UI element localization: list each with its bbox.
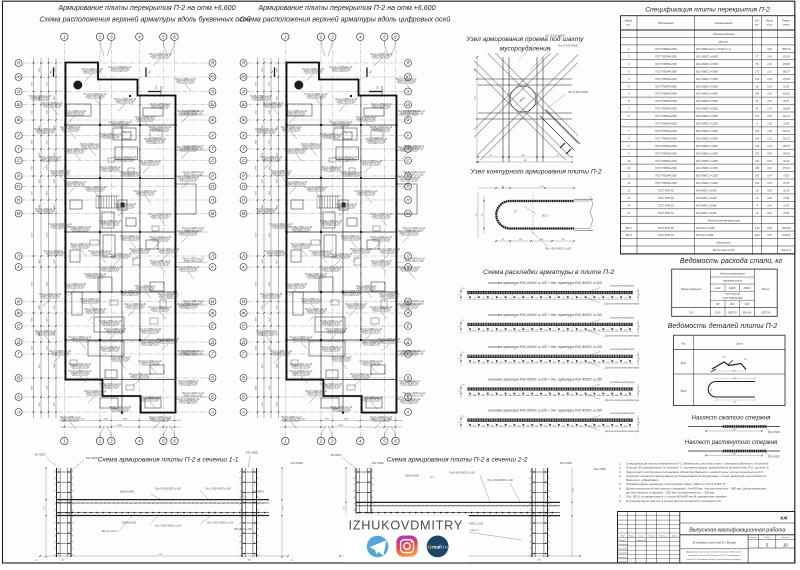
svg-text:Ф10 А500С L=2500: Ф10 А500С L=2500	[696, 108, 718, 111]
svg-text:А: А	[406, 410, 410, 415]
bar run 5	[459, 409, 641, 434]
svg-text:0,62: 0,62	[767, 49, 772, 51]
svg-text:А500С Ф10 ш.150: А500С Ф10 ш.150	[183, 260, 203, 263]
detail sketch VS1	[712, 362, 746, 370]
section 2-2 left wall	[355, 468, 357, 557]
svg-text:Приме-: Приме-	[782, 21, 790, 23]
svg-text:700: 700	[562, 298, 565, 300]
svg-text:Ф8 А2х3 L=890: Ф8 А2х3 L=890	[696, 234, 714, 237]
svg-text:518,20: 518,20	[783, 94, 791, 96]
svg-text:350: 350	[500, 426, 503, 428]
svg-text:Е: Е	[242, 324, 245, 329]
svg-text:3581: 3581	[269, 166, 271, 170]
letter axes	[15, 60, 216, 416]
svg-text:Ф10 А500С L=3000: Ф10 А500С L=3000	[696, 93, 718, 96]
svg-text:250: 250	[534, 362, 538, 364]
svg-text:200: 200	[623, 330, 627, 332]
svg-text:Д: Д	[210, 340, 214, 345]
svg-text:350: 350	[544, 426, 547, 428]
svg-text:ВСх1: ВСх1	[626, 227, 633, 230]
balcony	[397, 184, 418, 214]
svg-text:183,57: 183,57	[783, 146, 791, 148]
svg-text:2211: 2211	[262, 68, 264, 73]
svg-text:700: 700	[615, 298, 618, 300]
svg-text:30: 30	[463, 288, 465, 290]
svg-text:300: 300	[580, 394, 583, 396]
svg-text:Ф10 А500С L=1000: Ф10 А500С L=1000	[696, 182, 718, 185]
svg-text:100: 100	[723, 357, 726, 359]
svg-text:Армирование плиты перекрытия П: Армирование плиты перекрытия П-2 на отм.…	[57, 4, 235, 12]
svg-text:350: 350	[624, 426, 627, 428]
section 2-2 right wall	[531, 468, 533, 557]
svg-text:50: 50	[291, 560, 293, 562]
svg-text:Л: Л	[210, 254, 214, 259]
steel consumption table	[672, 269, 778, 316]
svg-text:ГОСТ Р52544-2006: ГОСТ Р52544-2006	[723, 297, 744, 300]
svg-text:В спецификации для поз.1 учтен: В спецификации для поз.1 учтен расход на…	[626, 499, 722, 503]
svg-text:Поз.1 Ф10 А500С ш.100: Поз.1 Ф10 А500С ш.100	[545, 248, 572, 251]
svg-text:250: 250	[543, 362, 547, 364]
svg-text:250: 250	[596, 362, 600, 364]
svg-text:2051: 2051	[276, 305, 278, 310]
svg-text:Ф10 А500С L=6400: Ф10 А500С L=6400	[696, 56, 718, 59]
svg-text:ГОСТ Р52544-2006: ГОСТ Р52544-2006	[655, 78, 677, 81]
svg-text:Ф10 А500С L=2500: Ф10 А500С L=2500	[696, 115, 718, 118]
svg-text:И: И	[242, 299, 245, 304]
title block frame	[618, 512, 795, 564]
svg-text:2: 2	[148, 70, 151, 74]
svg-text:225,37: 225,37	[782, 138, 791, 140]
svg-text:200: 200	[534, 330, 538, 332]
svg-text:2,44: 2,44	[766, 56, 772, 59]
svg-text:А: А	[16, 410, 20, 415]
svg-text:200: 200	[543, 330, 547, 332]
svg-text:10': 10'	[627, 167, 631, 170]
section 1-1 slab	[56, 499, 269, 501]
svg-text:1691: 1691	[755, 235, 761, 237]
svg-text:250: 250	[570, 362, 574, 364]
svg-text:ГОСТ Р52544-2006: ГОСТ Р52544-2006	[655, 130, 677, 133]
svg-text:300: 300	[491, 394, 494, 396]
svg-text:Э: Э	[17, 89, 20, 94]
svg-text:1: 1	[155, 86, 157, 90]
stairs	[96, 196, 117, 208]
svg-text:ВСх2: ВСх2	[681, 391, 687, 393]
svg-text:Дополнительная арматура: Дополнительная арматура	[604, 429, 640, 433]
plan annotations	[250, 54, 421, 421]
svg-text:200: 200	[481, 330, 485, 332]
svg-text:Поз.12 Ф10 А500С: Поз.12 Ф10 А500С	[545, 35, 565, 38]
number axes	[61, 33, 179, 445]
svg-text:200: 200	[508, 330, 512, 332]
svg-text:В: В	[211, 376, 214, 381]
svg-text:1,36: 1,36	[767, 124, 772, 126]
svg-text:Р: Р	[211, 174, 214, 179]
svg-text:Листов: Листов	[781, 537, 789, 539]
detail sketch VS2	[708, 382, 755, 398]
svg-text:350: 350	[526, 426, 529, 428]
svg-text:Поз.: Поз.	[681, 343, 686, 346]
svg-text:Сборные единицы: Сборные единицы	[713, 33, 735, 36]
svg-text:2: 2	[98, 34, 102, 39]
svg-text:350: 350	[473, 426, 476, 428]
opening dims	[476, 57, 478, 162]
svg-text:Л: Л	[241, 254, 245, 259]
svg-text:Б: Б	[211, 395, 214, 400]
svg-text:Детали: Детали	[718, 41, 729, 44]
letter axes	[240, 60, 412, 416]
svg-text:Ф8 А240С L=1420: Ф8 А240С L=1420	[696, 197, 717, 200]
svg-text:300: 300	[553, 394, 556, 396]
contour section mark	[532, 194, 534, 236]
svg-text:232,54: 232,54	[782, 115, 791, 118]
svg-text:Кол.уч: Кол.уч	[629, 535, 635, 537]
svg-text:П-2: П-2	[689, 311, 694, 314]
svg-text:Е: Е	[17, 324, 20, 329]
svg-text:250: 250	[525, 362, 529, 364]
svg-text:350: 350	[482, 426, 485, 428]
svg-text:Ю: Ю	[241, 75, 246, 80]
svg-text:2: 2	[369, 70, 372, 74]
svg-text:200: 200	[570, 330, 574, 332]
svg-text:А400С: А400С	[728, 287, 736, 290]
svg-text:200: 200	[614, 330, 618, 332]
svg-text:2: 2	[49, 70, 52, 74]
section 1-1 right wall	[241, 468, 243, 557]
svg-text:700: 700	[509, 298, 512, 300]
svg-text:ГОСТ Р52544-2006: ГОСТ Р52544-2006	[655, 93, 677, 96]
svg-text:Дата: Дата	[671, 535, 678, 537]
svg-text:1,85: 1,85	[767, 101, 772, 103]
elevator	[339, 200, 348, 210]
svg-text:73,92: 73,92	[783, 176, 790, 178]
shaft circle	[295, 81, 304, 90]
svg-text:Е: Е	[407, 324, 410, 329]
svg-text:700: 700	[597, 298, 600, 300]
small fixtures	[108, 158, 115, 162]
svg-text:Поз.2' Ф10 А500С ш.100: Поз.2' Ф10 А500С ш.100	[155, 525, 182, 528]
svg-text:0,99: 0,99	[767, 153, 772, 155]
svg-text:Ф12 А500С: Ф12 А500С	[372, 462, 385, 465]
svg-text:поз.: поз.	[626, 24, 631, 27]
svg-text:300: 300	[544, 394, 547, 396]
svg-text:2: 2	[270, 70, 273, 74]
svg-text:Дополнительная арматура: Дополнительная арматура	[604, 398, 640, 402]
svg-text:Н.контр: Н.контр	[619, 557, 628, 559]
svg-text:33,26: 33,26	[715, 312, 721, 314]
svg-text:2051: 2051	[262, 402, 264, 407]
svg-text:1,36: 1,36	[767, 131, 772, 133]
svg-text:И: И	[17, 299, 20, 304]
svg-text:Спецификация плиты перекрытия: Спецификация плиты перекрытия П-2	[645, 7, 770, 14]
svg-text:700: 700	[606, 298, 609, 300]
svg-text:6.: 6.	[619, 486, 622, 490]
svg-text:Э: Э	[211, 89, 214, 94]
svg-text:66,73: 66,73	[783, 101, 790, 103]
svg-text:250: 250	[490, 362, 494, 364]
svg-text:1,23: 1,23	[767, 146, 772, 148]
svg-text:ГОСТ Р52544-2006: ГОСТ Р52544-2006	[655, 56, 677, 59]
svg-text:4.: 4.	[619, 474, 622, 478]
svg-text:300: 300	[571, 394, 574, 396]
svg-text:300: 300	[597, 394, 600, 396]
svg-text:Р: Р	[242, 174, 245, 179]
svg-text:2211: 2211	[39, 68, 41, 73]
svg-text:ед кг: ед кг	[767, 24, 773, 27]
svg-text:ГОСТ Р52544-2006: ГОСТ Р52544-2006	[655, 145, 677, 148]
svg-text:0,89: 0,89	[767, 228, 772, 230]
number axes	[282, 33, 400, 445]
svg-text:Б: Б	[242, 395, 245, 400]
svg-text:Поз.13 Ф10 А500С: Поз.13 Ф10 А500С	[558, 45, 578, 48]
svg-text:Дополнительная арматура: Дополнительная арматура	[604, 302, 640, 306]
svg-text:ГОСТ 5781-82: ГОСТ 5781-82	[658, 234, 675, 237]
svg-text:700: 700	[544, 298, 547, 300]
svg-text:2,16: 2,16	[766, 64, 772, 66]
svg-text:30: 30	[463, 416, 465, 418]
svg-text:Поз.1' Ф10 А500С ш.100: Поз.1' Ф10 А500С ш.100	[207, 522, 234, 525]
svg-text:226,32: 226,32	[782, 131, 791, 133]
svg-text:16-этажный жилой дом В г. Моск: 16-этажный жилой дом В г. Москве	[692, 540, 736, 544]
svg-text:Ф8 А500С: Ф8 А500С	[331, 454, 342, 457]
svg-text:200: 200	[561, 330, 565, 332]
svg-text:Ф10 А500С L=1500: Ф10 А500С L=1500	[696, 167, 718, 170]
svg-text:А500С: А500С	[743, 287, 751, 290]
svg-text:ГОСТ Р52544-2006: ГОСТ Р52544-2006	[655, 182, 677, 185]
svg-text:5905,70: 5905,70	[728, 312, 737, 314]
svg-text:293,12 м³: 293,12 м³	[780, 249, 791, 252]
svg-text:Д: Д	[406, 340, 410, 345]
svg-text:Арматура класса: Арматура класса	[722, 279, 743, 282]
svg-text:250: 250	[481, 362, 485, 364]
balcony	[176, 184, 197, 214]
notes	[618, 462, 770, 503]
svg-text:М: М	[406, 211, 410, 216]
svg-text:200х5н=2000: 200х5н=2000	[404, 476, 420, 478]
svg-text:Я: Я	[406, 61, 410, 66]
svg-text:ГОСТ Р52544-2006: ГОСТ Р52544-2006	[655, 123, 677, 126]
svg-text:Материалы: Материалы	[716, 242, 731, 245]
cut mark 2 left	[53, 68, 55, 78]
svg-text:Наименование: Наименование	[715, 21, 733, 25]
svg-text:В: В	[242, 376, 245, 381]
svg-text:2051: 2051	[39, 402, 41, 407]
svg-text:ГОСТ Р52544-2006: ГОСТ Р52544-2006	[655, 100, 677, 103]
svg-text:ГОСТ 5781-82: ГОСТ 5781-82	[725, 294, 740, 296]
svg-text:Ф10: Ф10	[730, 303, 735, 306]
svg-text:Ф10 А500С L=2200: Ф10 А500С L=2200	[696, 123, 718, 126]
svg-text:А2х3: А2х3	[714, 287, 721, 290]
svg-text:3581: 3581	[46, 166, 48, 170]
svg-text:250: 250	[614, 362, 618, 364]
svg-text:200: 200	[605, 330, 609, 332]
svg-text:Нахлест сжатого стержня: Нахлест сжатого стержня	[692, 416, 772, 422]
svg-text:Консульт: Консульт	[619, 553, 629, 555]
svg-text:А500С Ф10 ш.250: А500С Ф10 ш.250	[183, 394, 203, 397]
svg-text:Ф10 А500С: Ф10 А500С	[252, 491, 264, 494]
svg-text:6307,58: 6307,58	[762, 312, 771, 314]
svg-text:18,25: 18,25	[783, 213, 790, 215]
svg-text:50: 50	[459, 326, 461, 328]
svg-text:3583,76: 3583,76	[782, 49, 791, 51]
svg-text:Ф10 А500С L=1200: Ф10 А500С L=1200	[696, 175, 718, 178]
svg-text:0,74: 0,74	[767, 175, 772, 178]
svg-text:700: 700	[553, 298, 556, 300]
svg-text:Ф10 А500С Бухт L=5754,4 п.м: Ф10 А500С Бухт L=5754,4 п.м	[696, 48, 731, 51]
title block rows right	[680, 522, 795, 524]
cut mark 2 right	[145, 68, 147, 78]
section 2-2 slab	[356, 501, 560, 503]
svg-text:50: 50	[639, 294, 641, 296]
svg-text:50: 50	[459, 390, 461, 392]
contour dims	[478, 187, 574, 189]
svg-text:250: 250	[516, 362, 520, 364]
svg-text:300: 300	[517, 394, 520, 396]
svg-text:5942,68: 5942,68	[782, 227, 791, 230]
svg-text:700: 700	[500, 298, 503, 300]
svg-text:Дополнительная арматура: Дополнительная арматура	[604, 365, 640, 369]
right leaders	[398, 114, 404, 116]
svg-text:300: 300	[500, 394, 503, 396]
svg-text:300: 300	[526, 394, 529, 396]
svg-text:30: 30	[463, 320, 465, 322]
svg-text:179,68: 179,68	[783, 64, 791, 66]
svg-text:- - -- -- - -: - - -- -- - -	[376, 534, 384, 536]
svg-text:основная арматура: основная арматура	[610, 381, 635, 384]
svg-text:200: 200	[499, 330, 503, 332]
svg-text:500х5н=2500: 500х5н=2500	[120, 492, 135, 494]
svg-text:700: 700	[491, 298, 494, 300]
svg-text:300: 300	[624, 394, 627, 396]
svg-text:Ф10 А500С: Ф10 А500С	[768, 455, 781, 458]
watermark panel	[344, 514, 470, 563]
svg-text:Ю: Ю	[16, 75, 21, 80]
svg-text:300: 300	[248, 560, 251, 562]
svg-text:Ф10 А500С L=1500: Ф10 А500С L=1500	[696, 160, 718, 163]
svg-text:30: 30	[463, 352, 465, 354]
mail.ru icon	[427, 536, 449, 558]
svg-text:200: 200	[552, 330, 556, 332]
svg-text:50: 50	[459, 421, 461, 423]
svg-text:Схема раскладки арматуры в пли: Схема раскладки арматуры в плите П-2	[483, 268, 614, 276]
svg-text:№ док: № док	[648, 534, 655, 537]
svg-text:Я: Я	[16, 61, 20, 66]
svg-text:2211: 2211	[255, 110, 257, 115]
svg-text:ГОСТ 5781-82: ГОСТ 5781-82	[658, 190, 675, 193]
svg-text:ГОСТ Р52544-2006: ГОСТ Р52544-2006	[655, 175, 677, 178]
svg-text:0,92: 0,92	[767, 168, 772, 170]
svg-text:Лист: Лист	[764, 537, 770, 539]
svg-text:700: 700	[526, 298, 529, 300]
svg-text:200: 200	[516, 330, 520, 332]
svg-text:Схема армирования плиты П-2 в: Схема армирования плиты П-2 в сечении 1-…	[98, 457, 239, 464]
svg-text:Марка элемента: Марка элемента	[681, 288, 702, 291]
svg-text:основная арматура Ф10 А500С ш.: основная арматура Ф10 А500С ш.100 + доп.…	[488, 281, 602, 285]
svg-text:350: 350	[734, 402, 737, 404]
svg-text:260: 260	[732, 371, 736, 373]
svg-text:КЖ: КЖ	[780, 516, 788, 521]
svg-text:250: 250	[508, 362, 512, 364]
svg-text:основная арматура Ф10 А500С ш.: основная арматура Ф10 А500С ш.100 + доп.…	[488, 345, 602, 349]
svg-text:Выпускная квалификационная раб: Выпускная квалификационная работа	[689, 527, 785, 533]
svg-text:ГОСТ Р52544-2006: ГОСТ Р52544-2006	[655, 152, 677, 155]
junction fills	[99, 124, 101, 126]
bubble leader curves bottom	[321, 426, 325, 437]
svg-text:350: 350	[571, 426, 574, 428]
svg-text:Ф10 А500С L=2000: Ф10 А500С L=2000	[696, 137, 718, 140]
svg-text:210: 210	[44, 507, 46, 511]
svg-text:Ш: Ш	[406, 102, 410, 107]
svg-text:300: 300	[535, 394, 538, 396]
svg-text:Ф10 А500С L=1600: Ф10 А500С L=1600	[696, 152, 718, 155]
svg-text:350: 350	[517, 426, 520, 428]
svg-text:Т: Т	[17, 147, 20, 152]
svg-text:700: 700	[624, 298, 627, 300]
svg-text:1,85: 1,85	[767, 94, 772, 96]
svg-text:Ф12 А500С: Ф12 А500С	[594, 468, 607, 471]
svg-text:50: 50	[639, 390, 641, 392]
svg-text:Т: Т	[242, 147, 245, 152]
section 2-2 dims	[345, 468, 347, 557]
svg-text:385,67: 385,67	[783, 71, 791, 73]
svg-text:1,54: 1,54	[767, 108, 772, 111]
svg-text:основная арматура: основная арматура	[610, 284, 635, 287]
svg-text:150,55: 150,55	[783, 153, 791, 155]
svg-text:Поз.1 Ф10 А500С ш.100: Поз.1 Ф10 А500С ш.100	[205, 488, 231, 491]
svg-text:Проверил: Проверил	[619, 544, 629, 546]
svg-text:ГОСТ 5781-82: ГОСТ 5781-82	[658, 227, 675, 230]
interior walls	[66, 124, 176, 126]
svg-text:2: 2	[98, 439, 102, 444]
svg-text:основная арматура: основная арматура	[610, 412, 635, 415]
plan outline	[287, 63, 397, 413]
contour thin slab lines	[574, 198, 593, 200]
svg-text:Я: Я	[210, 61, 214, 66]
leader strokes	[254, 59, 415, 429]
svg-text:0,64: 0,64	[767, 204, 772, 207]
svg-text:50: 50	[35, 560, 37, 562]
svg-text:ГОСТ Р52544-2006: ГОСТ Р52544-2006	[655, 160, 677, 163]
svg-text:Е: Е	[211, 324, 214, 329]
svg-text:3581: 3581	[255, 282, 257, 286]
svg-text:200: 200	[525, 330, 529, 332]
stairs	[317, 196, 338, 208]
svg-text:Армирование плиты перекрытия П: Армирование плиты перекрытия П-2 на отм.…	[257, 4, 435, 12]
svg-text:2,03: 2,03	[766, 86, 772, 88]
svg-text:50: 50	[639, 421, 641, 423]
svg-text:Я: Я	[241, 61, 245, 66]
left dimension chains	[257, 58, 259, 418]
svg-text:700: 700	[571, 298, 574, 300]
svg-text:шт.: шт.	[755, 25, 760, 27]
interior rooms	[67, 104, 92, 116]
svg-text:ГОСТ Р52544-2006: ГОСТ Р52544-2006	[655, 85, 677, 88]
elevator	[118, 200, 127, 210]
svg-text:основная арматура Ф10 А500С ш.: основная арматура Ф10 А500С ш.100 + доп.…	[488, 377, 602, 381]
svg-text:Обозначение: Обозначение	[658, 21, 674, 25]
leader strokes	[33, 59, 194, 429]
svg-text:Э: Э	[242, 89, 245, 94]
cut mark 2 right	[366, 68, 368, 78]
svg-text:6,46: 6,46	[755, 227, 760, 230]
svg-text:Т: Т	[211, 147, 214, 152]
svg-text:700: 700	[535, 298, 538, 300]
svg-text:350: 350	[509, 426, 512, 428]
svg-text:Ш: Ш	[17, 102, 21, 107]
svg-text:ГОСТ 5781-82: ГОСТ 5781-82	[658, 212, 675, 215]
svg-text:700: 700	[517, 298, 520, 300]
svg-text:50: 50	[639, 358, 641, 360]
